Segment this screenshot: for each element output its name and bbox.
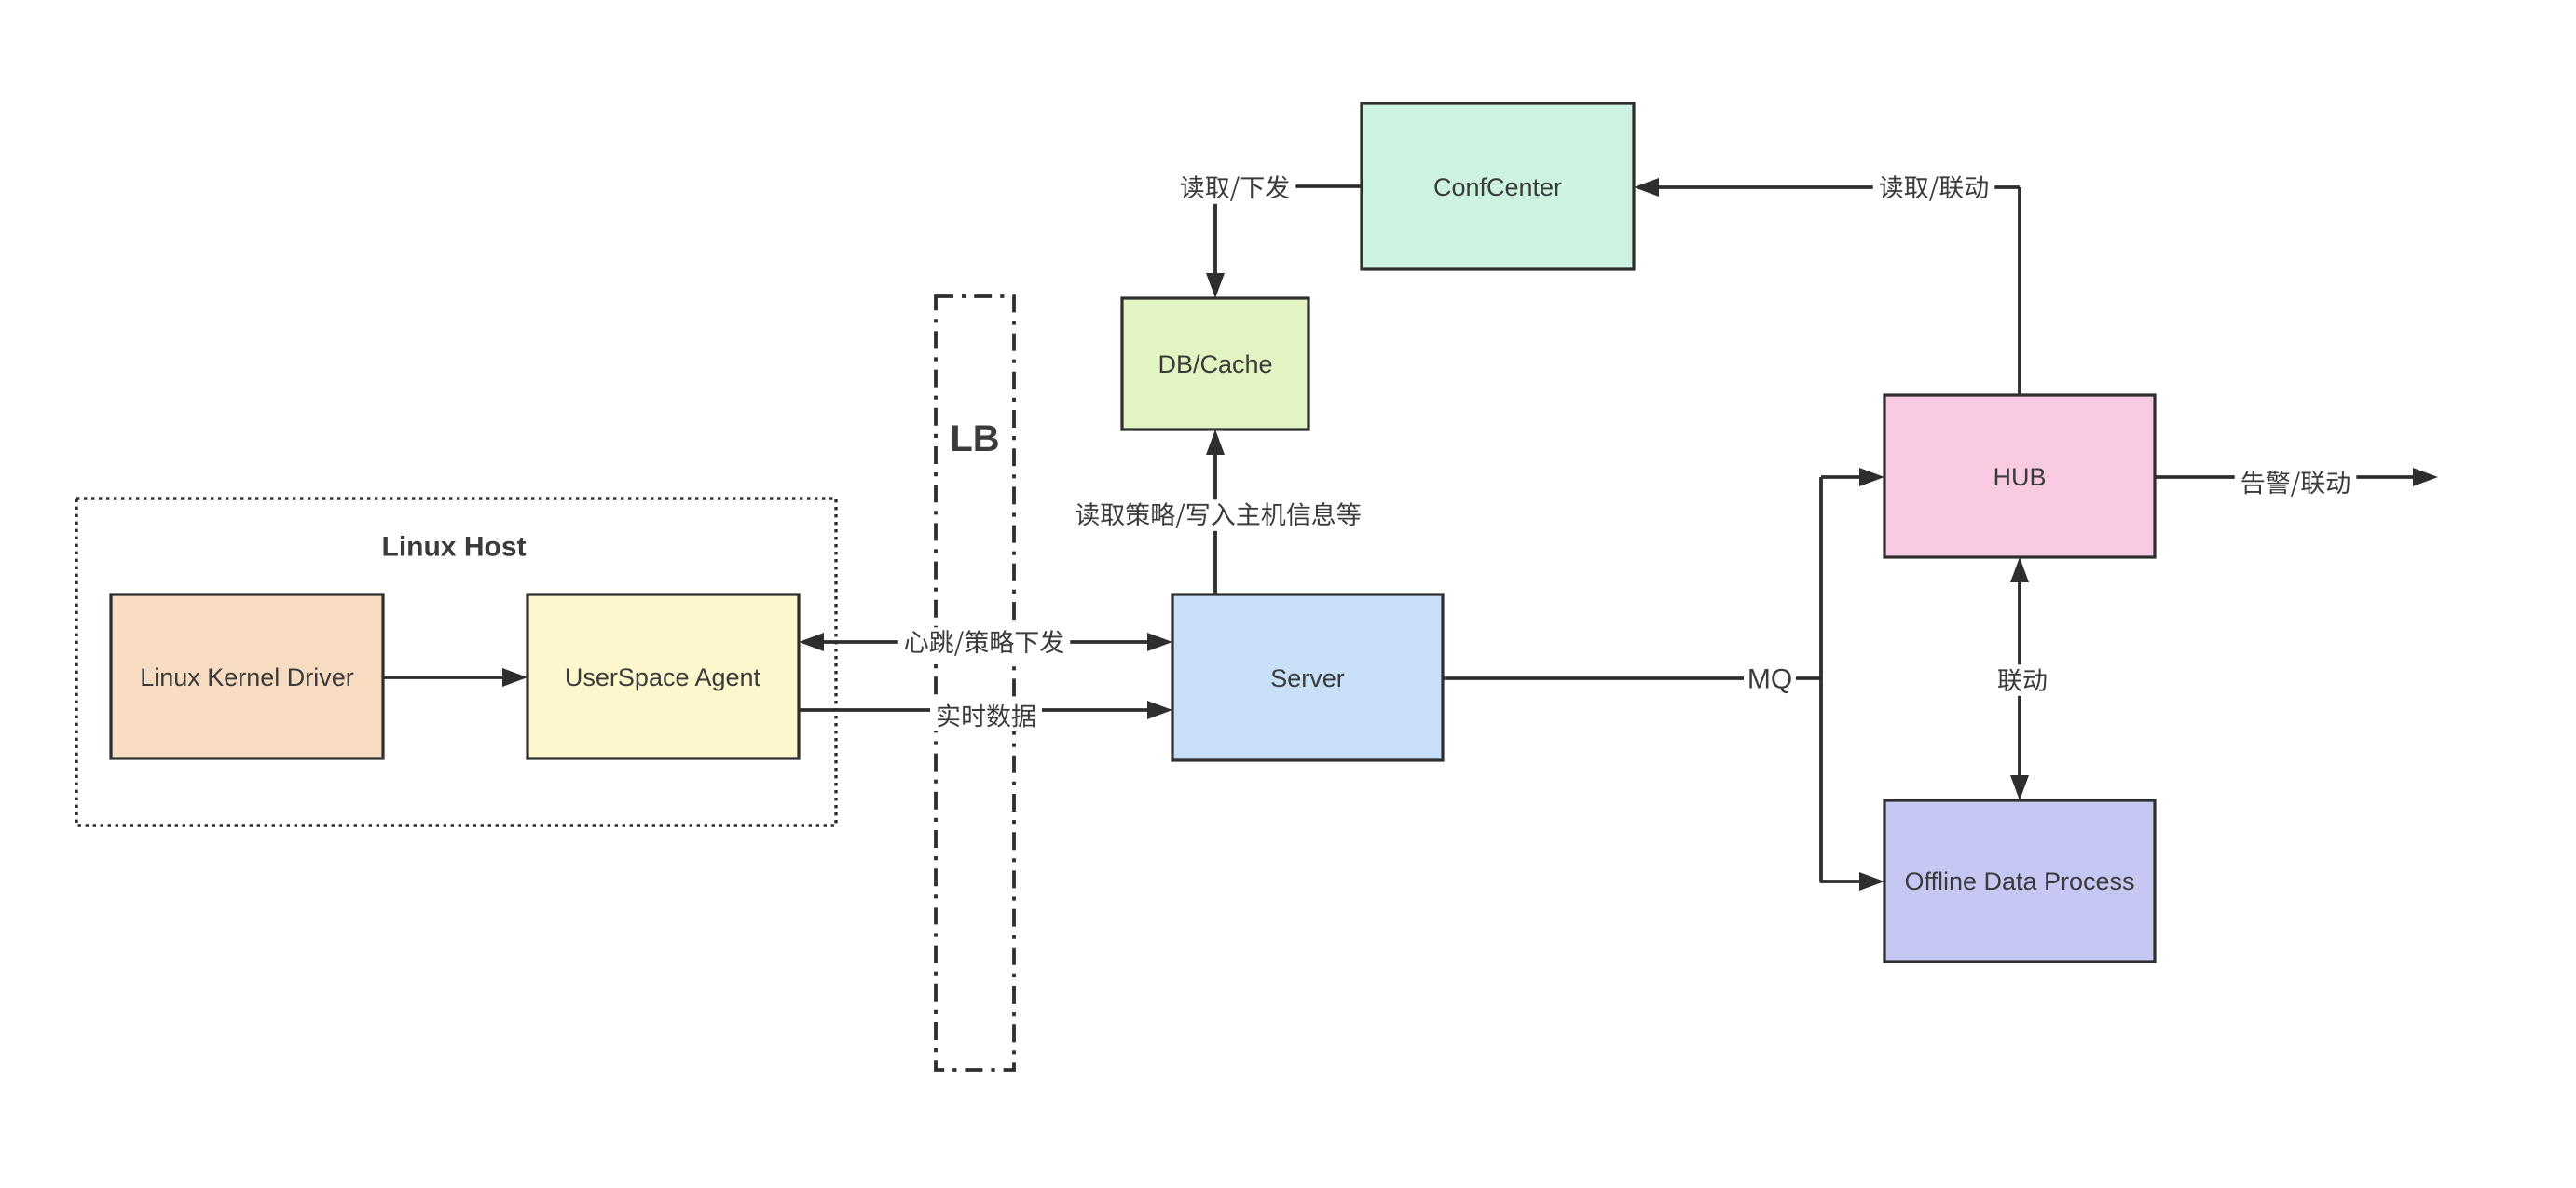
wire Kernel Driver to UserSpace Agent, arrow right: [383, 676, 504, 679]
label MQ: [1744, 662, 1796, 696]
svg-text:Offline Data Process: Offline Data Process: [1904, 867, 2134, 895]
svg-text:LB: LB: [950, 418, 999, 459]
svg-text:HUB: HUB: [1993, 463, 2046, 491]
svg-text:ConfCenter: ConfCenter: [1433, 173, 1562, 201]
svg-text:UserSpace Agent: UserSpace Agent: [565, 663, 761, 691]
svg-text:MQ: MQ: [1747, 664, 1792, 695]
wire trunk to Offline Data Process, arrow right: [1820, 880, 1862, 883]
label 联动: [1992, 664, 2053, 696]
box UserSpace Agent: [528, 594, 799, 758]
wire UserSpace Agent <-> Server heartbeat, arrows both ends: [822, 640, 1149, 644]
wire UserSpace Agent to Server realtime data, arrow right: [799, 708, 1149, 712]
box Server: [1172, 594, 1443, 760]
box HUB: [1884, 395, 2155, 557]
wire MQ vertical trunk: [1819, 477, 1823, 881]
wire ConfCenter to DB/Cache elbow, arrow down: [1215, 184, 1362, 188]
svg-text:Server: Server: [1270, 664, 1345, 692]
box DB/Cache: [1122, 298, 1309, 430]
wire HUB <-> Offline Data Process, arrows both ends: [2018, 580, 2021, 777]
wire trunk to HUB, arrow right: [1821, 475, 1861, 479]
box ConfCenter: [1362, 103, 1634, 269]
wire HUB alarm output, arrow right: [2155, 475, 2415, 479]
svg-text:Linux Kernel Driver: Linux Kernel Driver: [140, 663, 354, 691]
label 读取/下发: [1174, 172, 1296, 204]
box Offline Data Process: [1884, 800, 2155, 962]
svg-text:Linux Host: Linux Host: [382, 532, 527, 563]
Linux Host dotted group box: [76, 498, 836, 826]
wire Server to MQ junction: [1443, 676, 1821, 680]
wire HUB to ConfCenter elbow, arrow left: [2018, 187, 2021, 395]
box Linux Kernel Driver: [111, 594, 383, 758]
svg-text:DB/Cache: DB/Cache: [1158, 350, 1272, 378]
label 告警/联动: [2235, 468, 2357, 499]
label 实时数据: [930, 700, 1042, 731]
label 心跳/策略下发: [898, 627, 1071, 659]
LB load-balancer dash-dot zone: [936, 296, 1014, 1070]
label 读取/联动: [1873, 172, 1995, 204]
label 读取策略/写入主机信息等: [1069, 499, 1367, 531]
wire Server to DB/Cache, arrow up: [1213, 453, 1217, 594]
